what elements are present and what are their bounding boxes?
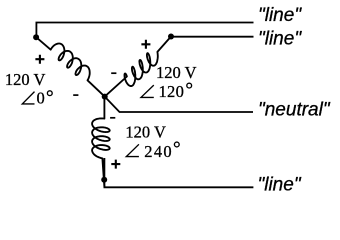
label 120 V (winding 1) [5,70,46,89]
label 120 V (winding 2) [156,63,197,82]
inductor winding 2 (120 V at 120 deg) [105,37,171,97]
polarity - winding 1 [73,94,78,96]
polarity + winding 1 [35,55,44,64]
polarity + winding 3 [111,160,120,169]
inductor winding 1 (120 V at 0 deg) [36,37,104,96]
svg-text:"line": "line" [258,174,302,195]
label line (top) [258,5,302,26]
label neutral [258,99,331,120]
node dot winding 1 top terminal [33,34,39,40]
angle symbol winding 2 [141,85,154,97]
label line (bottom) [258,174,302,195]
wire neutral from center junction [105,97,253,112]
polarity + winding 2 [141,40,150,49]
label 240 deg (winding 3) [144,142,179,161]
label 120 V (winding 3) [125,123,166,142]
label line (second) [258,29,302,50]
svg-text:120 V: 120 V [125,123,166,142]
node dot center neutral junction [102,94,108,100]
label 120 deg (winding 2) [159,82,192,101]
node dot winding 2 top terminal [168,34,174,40]
wire second line from winding 2 terminal [171,36,254,38]
svg-text:"line": "line" [258,5,302,26]
polarity - winding 2 [111,72,116,74]
angle symbol winding 3 [126,144,139,156]
label 0 deg (winding 1) [37,89,53,108]
inductor winding 3 (120 V at 240 deg) [92,97,110,188]
svg-text:"neutral": "neutral" [258,99,331,120]
svg-text:120: 120 [159,82,185,101]
svg-text:240: 240 [144,142,173,161]
wire top line from upper-left corner to first line terminal [36,23,253,38]
svg-text:120 V: 120 V [5,70,46,89]
svg-text:120 V: 120 V [156,63,197,82]
polarity - winding 3 [110,117,115,119]
svg-text:"line": "line" [258,29,302,50]
angle symbol winding 1 [22,92,34,104]
svg-text:0: 0 [37,89,45,108]
node dot winding 3 bottom terminal [101,177,107,183]
wire bottom line to third line terminal [104,158,253,187]
